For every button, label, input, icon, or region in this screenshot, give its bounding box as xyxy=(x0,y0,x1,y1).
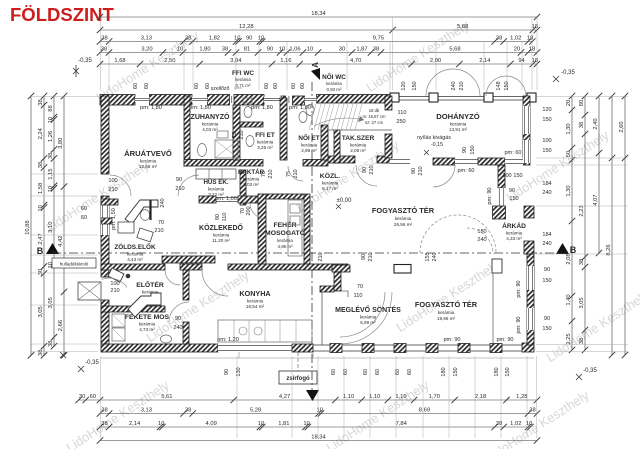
stairs xyxy=(309,104,316,130)
svg-text:3,13: 3,13 xyxy=(141,408,152,414)
svg-text:-0,15: -0,15 xyxy=(431,142,443,148)
svg-text:60: 60 xyxy=(407,369,413,375)
svg-text:3,20: 3,20 xyxy=(141,47,152,53)
svg-text:2,23: 2,23 xyxy=(579,205,585,216)
svg-text:150: 150 xyxy=(504,81,510,90)
svg-text:12,28: 12,28 xyxy=(239,24,254,30)
svg-text:kerámia: kerámia xyxy=(506,231,523,236)
svg-text:88: 88 xyxy=(48,105,54,111)
svg-text:4,43 m²: 4,43 m² xyxy=(127,257,143,262)
right bottom corner pier xyxy=(522,343,534,352)
svg-text:5,61: 5,61 xyxy=(161,394,172,400)
porch edge xyxy=(78,282,101,300)
section line A vertical xyxy=(311,82,313,390)
svg-text:MOSOGATÓ: MOSOGATÓ xyxy=(265,228,305,237)
svg-text:2,24: 2,24 xyxy=(38,127,44,139)
svg-text:150: 150 xyxy=(412,81,418,90)
svg-text:150: 150 xyxy=(542,117,551,123)
plinth line below bottom wall xyxy=(101,357,534,359)
svg-text:90: 90 xyxy=(361,254,367,260)
svg-text:38: 38 xyxy=(579,122,585,128)
svg-text:FEKETE MOS: FEKETE MOS xyxy=(125,314,170,321)
svg-text:210: 210 xyxy=(459,81,465,90)
svg-text:75: 75 xyxy=(232,132,238,138)
svg-text:1,70: 1,70 xyxy=(429,394,440,400)
svg-text:210: 210 xyxy=(110,288,119,294)
zuhanyzo / ffi wc divider xyxy=(233,105,240,160)
svg-text:1,28: 1,28 xyxy=(516,394,527,400)
zuhanyzo fixtures xyxy=(215,140,238,158)
top terrace edge with piers xyxy=(390,96,530,98)
svg-text:1,82: 1,82 xyxy=(209,36,220,42)
svg-text:4,07: 4,07 xyxy=(593,194,599,205)
svg-text:5,28: 5,28 xyxy=(250,408,261,414)
svg-text:kerámia: kerámia xyxy=(450,122,467,127)
svg-text:210: 210 xyxy=(175,186,184,192)
svg-text:kerámia: kerámia xyxy=(243,177,260,182)
svg-text:20: 20 xyxy=(566,100,572,106)
ffi et / noi et divider xyxy=(280,98,287,160)
noi et right wall xyxy=(321,125,328,160)
svg-text:1,25: 1,25 xyxy=(566,333,572,344)
svg-text:2,99 m²: 2,99 m² xyxy=(301,148,317,153)
svg-text:ÁRKÁD: ÁRKÁD xyxy=(502,221,526,230)
svg-text:120: 120 xyxy=(401,81,407,90)
svg-text:2,60: 2,60 xyxy=(619,121,625,132)
konyha counters xyxy=(218,320,312,342)
svg-text:2,08 m²: 2,08 m² xyxy=(350,148,366,153)
ffi et fixtures xyxy=(246,136,254,147)
svg-text:kerámia: kerámia xyxy=(247,299,264,304)
svg-text:B: B xyxy=(570,245,577,255)
svg-text:10: 10 xyxy=(177,47,183,53)
hus ek counter xyxy=(196,169,236,179)
svg-text:10,88: 10,88 xyxy=(25,220,31,235)
svg-text:80: 80 xyxy=(215,214,221,220)
svg-text:pm: 1,80: pm: 1,80 xyxy=(140,105,162,111)
svg-text:kerámia: kerámia xyxy=(350,143,367,148)
eloter / fekete mos walls xyxy=(183,270,189,300)
svg-text:38: 38 xyxy=(222,47,228,53)
svg-text:ZUHANYZÓ: ZUHANYZÓ xyxy=(191,112,230,121)
svg-text:240: 240 xyxy=(173,325,182,331)
svg-text:7,84: 7,84 xyxy=(396,421,408,427)
svg-text:KONYHA: KONYHA xyxy=(239,289,270,298)
svg-text:50: 50 xyxy=(566,151,572,157)
svg-text:-0,35: -0,35 xyxy=(583,368,597,374)
svg-text:13,91 m²: 13,91 m² xyxy=(449,127,468,132)
svg-text:81: 81 xyxy=(244,47,250,53)
svg-text:FEHÉR: FEHÉR xyxy=(273,220,296,229)
svg-text:150: 150 xyxy=(509,196,518,202)
svg-text:70: 70 xyxy=(158,220,164,226)
hus ek right / raktar left xyxy=(240,170,246,205)
svg-text:60: 60 xyxy=(363,369,369,375)
svg-text:kerámia: kerámia xyxy=(301,143,318,148)
svg-text:FFI WC: FFI WC xyxy=(232,70,254,77)
section marker A top xyxy=(311,68,320,80)
svg-text:150: 150 xyxy=(513,173,522,179)
feher mosogato walls xyxy=(258,194,266,266)
svg-text:3,26 m²: 3,26 m² xyxy=(257,145,273,150)
svg-text:38: 38 xyxy=(38,350,44,356)
svg-text:5,88: 5,88 xyxy=(457,24,468,30)
svg-text:FOGYASZTÓ TÉR: FOGYASZTÓ TÉR xyxy=(415,300,478,309)
svg-text:70: 70 xyxy=(357,284,363,290)
svg-text:210: 210 xyxy=(368,252,374,261)
svg-text:4,27: 4,27 xyxy=(279,394,290,400)
svg-text:60: 60 xyxy=(300,83,306,89)
svg-text:MEGLÉVŐ SÖNTÉS: MEGLÉVŐ SÖNTÉS xyxy=(335,305,401,314)
svg-text:1,02: 1,02 xyxy=(510,36,521,42)
outer bottom wall xyxy=(101,344,218,352)
svg-text:pm: 60: pm: 60 xyxy=(504,150,521,156)
svg-text:TAK.SZER: TAK.SZER xyxy=(342,135,375,142)
svg-text:184: 184 xyxy=(542,181,551,187)
door arcs xyxy=(110,175,131,196)
svg-text:8,69: 8,69 xyxy=(419,408,430,414)
svg-text:pm: 90: pm: 90 xyxy=(443,337,460,343)
svg-text:2,40: 2,40 xyxy=(593,118,599,129)
svg-text:100: 100 xyxy=(502,173,511,179)
svg-text:sz: 27 cm: sz: 27 cm xyxy=(365,120,383,125)
section line B horizontal xyxy=(52,252,562,254)
svg-text:KÖZL.: KÖZL. xyxy=(320,171,340,180)
svg-text:38: 38 xyxy=(373,47,379,53)
svg-text:5,68: 5,68 xyxy=(449,47,460,53)
svg-text:20: 20 xyxy=(514,47,520,53)
svg-text:38: 38 xyxy=(101,47,107,53)
zuhanyzo sink xyxy=(217,131,228,138)
svg-text:210: 210 xyxy=(418,166,424,175)
svg-text:m: 16,67 cm: m: 16,67 cm xyxy=(362,114,386,119)
svg-text:60: 60 xyxy=(375,369,381,375)
svg-text:240: 240 xyxy=(451,81,457,90)
svg-text:1,87: 1,87 xyxy=(356,47,367,53)
svg-text:nyílás kivágás: nyílás kivágás xyxy=(417,135,451,141)
svg-text:DOHÁNYZÓ: DOHÁNYZÓ xyxy=(436,112,480,121)
section marker A bottom xyxy=(306,390,319,401)
svg-text:60: 60 xyxy=(133,83,139,89)
svg-text:1,03 m²: 1,03 m² xyxy=(243,182,259,187)
svg-text:1,30: 1,30 xyxy=(566,123,572,134)
svg-text:2,08: 2,08 xyxy=(566,253,572,264)
svg-text:38: 38 xyxy=(48,153,54,159)
svg-text:200: 200 xyxy=(246,206,252,215)
svg-text:250: 250 xyxy=(396,119,405,125)
svg-text:2,14: 2,14 xyxy=(479,58,491,64)
svg-text:240: 240 xyxy=(477,237,486,243)
svg-text:90: 90 xyxy=(462,147,468,153)
svg-text:155: 155 xyxy=(425,252,431,261)
wall right of tak szer xyxy=(385,96,392,110)
svg-text:3,05: 3,05 xyxy=(38,306,44,317)
svg-text:kerámia: kerámia xyxy=(139,322,156,327)
svg-text:1,80: 1,80 xyxy=(199,47,210,53)
svg-text:10: 10 xyxy=(279,47,285,53)
svg-text:150: 150 xyxy=(453,367,459,376)
noi wc fixtures xyxy=(306,105,314,116)
feher mosogato fixtures xyxy=(288,200,302,256)
svg-text:1,06: 1,06 xyxy=(289,47,300,53)
interior: aruatvevo/zuhanyzo divider xyxy=(184,96,190,166)
svg-text:120: 120 xyxy=(542,107,551,113)
svg-text:pm: 90: pm: 90 xyxy=(516,316,522,333)
noi et bottom walls xyxy=(303,160,328,167)
svg-text:1,26: 1,26 xyxy=(48,131,54,142)
svg-text:3,80: 3,80 xyxy=(58,138,64,149)
svg-text:18 db: 18 db xyxy=(369,108,380,113)
extension lines right xyxy=(536,96,628,98)
svg-text:240: 240 xyxy=(160,198,166,207)
svg-text:150: 150 xyxy=(505,367,511,376)
svg-text:1,10: 1,10 xyxy=(343,394,354,400)
svg-text:90: 90 xyxy=(544,316,550,322)
svg-text:26,56 m²: 26,56 m² xyxy=(394,222,413,227)
svg-text:38: 38 xyxy=(38,162,44,168)
svg-text:240: 240 xyxy=(542,190,551,196)
ffi wc fixtures xyxy=(244,107,252,118)
svg-text:kerámia: kerámia xyxy=(326,81,342,86)
svg-text:-0,35: -0,35 xyxy=(85,360,99,366)
svg-text:210: 210 xyxy=(293,169,299,178)
svg-text:80: 80 xyxy=(579,100,585,106)
svg-text:210: 210 xyxy=(318,252,324,261)
svg-text:pm: 1,50: pm: 1,50 xyxy=(111,208,117,230)
svg-text:pm: 90: pm: 90 xyxy=(487,187,493,204)
svg-text:kerámia: kerámia xyxy=(127,252,144,257)
svg-text:12,68 m²: 12,68 m² xyxy=(139,164,158,169)
svg-text:150: 150 xyxy=(542,278,551,284)
dohanyzo right wall xyxy=(523,96,530,165)
svg-text:100: 100 xyxy=(108,178,117,184)
svg-text:3,04: 3,04 xyxy=(230,58,242,64)
outer left wall xyxy=(101,96,109,174)
aruatvevo desk xyxy=(125,200,158,224)
svg-text:60: 60 xyxy=(144,83,150,89)
svg-text:A: A xyxy=(311,62,320,68)
svg-text:FÖLDSZINT: FÖLDSZINT xyxy=(10,4,114,25)
svg-text:kerámia: kerámia xyxy=(257,140,274,145)
svg-text:10: 10 xyxy=(307,47,313,53)
svg-text:90: 90 xyxy=(411,168,417,174)
svg-text:KÖZLEKEDŐ: KÖZLEKEDŐ xyxy=(199,223,244,232)
svg-text:16,54 m²: 16,54 m² xyxy=(246,304,265,309)
svg-text:210: 210 xyxy=(369,165,375,174)
arcade dashed arches xyxy=(420,215,496,253)
svg-text:±0,00: ±0,00 xyxy=(337,198,353,204)
svg-text:HÚS EK.: HÚS EK. xyxy=(203,179,228,186)
outer top wall xyxy=(100,95,135,106)
svg-text:1,81: 1,81 xyxy=(278,421,289,427)
svg-text:18,34: 18,34 xyxy=(311,11,326,17)
svg-text:150: 150 xyxy=(542,148,551,154)
svg-text:184: 184 xyxy=(542,232,551,238)
ffi wc stub xyxy=(240,122,263,127)
svg-text:1,40: 1,40 xyxy=(566,294,572,305)
svg-text:38: 38 xyxy=(48,340,54,346)
svg-text:kerámia: kerámia xyxy=(438,310,455,315)
svg-text:19,96 m²: 19,96 m² xyxy=(437,316,456,321)
svg-text:0,71 m²: 0,71 m² xyxy=(236,83,251,88)
svg-text:38: 38 xyxy=(579,259,585,265)
svg-text:kerámia: kerámia xyxy=(395,216,412,221)
svg-text:9,75: 9,75 xyxy=(373,36,384,42)
svg-text:2,14: 2,14 xyxy=(129,421,141,427)
hulladektarolo xyxy=(52,258,96,268)
svg-text:2,18: 2,18 xyxy=(475,394,486,400)
svg-text:60: 60 xyxy=(264,83,270,89)
svg-text:4,42: 4,42 xyxy=(58,236,64,247)
svg-text:18,34: 18,34 xyxy=(311,435,326,441)
fekete mos fixtures xyxy=(112,314,125,327)
eloter counter xyxy=(128,293,161,317)
svg-text:180: 180 xyxy=(494,367,500,376)
arcade vertical wall xyxy=(498,165,505,188)
svg-text:0,93 m²: 0,93 m² xyxy=(327,87,342,92)
svg-text:FFI ET: FFI ET xyxy=(255,132,275,139)
svg-text:90: 90 xyxy=(175,316,181,322)
svg-text:150: 150 xyxy=(470,145,476,154)
svg-text:4,33 m²: 4,33 m² xyxy=(506,236,522,241)
svg-text:75: 75 xyxy=(261,171,267,177)
svg-text:4,73 m²: 4,73 m² xyxy=(139,327,155,332)
noi et fixtures xyxy=(299,112,307,123)
svg-text:2,66: 2,66 xyxy=(58,320,64,331)
svg-text:3,10: 3,10 xyxy=(48,222,54,233)
svg-text:3,05: 3,05 xyxy=(579,297,585,308)
svg-text:kerámia: kerámia xyxy=(208,187,225,192)
svg-text:110: 110 xyxy=(222,213,228,222)
svg-text:pm: 90: pm: 90 xyxy=(496,337,513,343)
kitchen top wall y264 xyxy=(101,264,165,270)
svg-text:38: 38 xyxy=(579,338,585,344)
svg-text:NŐI ET: NŐI ET xyxy=(298,133,319,142)
svg-text:240: 240 xyxy=(432,252,438,261)
tak szer left wall xyxy=(334,130,340,163)
right lower wall xyxy=(527,254,534,345)
svg-text:kerámia: kerámia xyxy=(322,181,339,186)
svg-text:FOGYASZTÓ TÉR: FOGYASZTÓ TÉR xyxy=(372,206,435,215)
svg-text:38: 38 xyxy=(38,99,44,105)
svg-text:ELŐTÉR: ELŐTÉR xyxy=(136,280,164,289)
svg-text:1,58: 1,58 xyxy=(38,183,44,194)
svg-text:kerámia: kerámia xyxy=(202,122,219,127)
svg-text:hulladéktároló: hulladéktároló xyxy=(60,262,89,267)
svg-text:ZÖLDS.ELŐK: ZÖLDS.ELŐK xyxy=(114,242,156,251)
svg-text:11,20 m²: 11,20 m² xyxy=(212,238,230,243)
svg-text:60: 60 xyxy=(194,83,200,89)
svg-text:1,10: 1,10 xyxy=(369,394,380,400)
svg-text:kerámia: kerámia xyxy=(360,315,377,320)
svg-text:90: 90 xyxy=(362,167,368,173)
svg-text:1,02: 1,02 xyxy=(510,421,521,427)
svg-text:60: 60 xyxy=(331,369,337,375)
svg-text:100: 100 xyxy=(542,138,551,144)
section marker B right xyxy=(556,243,569,254)
svg-text:90: 90 xyxy=(267,47,273,53)
svg-text:30: 30 xyxy=(339,47,345,53)
svg-text:4,70: 4,70 xyxy=(350,58,361,64)
svg-text:pm: 90: pm: 90 xyxy=(516,280,522,297)
zolds elok fixture xyxy=(137,228,153,242)
svg-text:210: 210 xyxy=(108,187,117,193)
svg-text:1,30: 1,30 xyxy=(566,185,572,196)
svg-text:100: 100 xyxy=(110,281,119,287)
svg-text:4,03 m²: 4,03 m² xyxy=(202,127,218,132)
zolds elok bottom wall xyxy=(162,256,215,263)
svg-text:210: 210 xyxy=(268,169,274,178)
svg-text:4,96 m²: 4,96 m² xyxy=(278,244,293,249)
svg-text:110: 110 xyxy=(398,110,407,116)
svg-text:zsírfogó: zsírfogó xyxy=(286,376,310,382)
svg-text:pm: 1,80: pm: 1,80 xyxy=(189,105,211,111)
svg-text:szellőző: szellőző xyxy=(211,86,230,92)
svg-text:90: 90 xyxy=(544,267,550,273)
extension lines bottom xyxy=(100,356,102,438)
svg-text:pm: 1,00: pm: 1,00 xyxy=(215,196,237,202)
svg-text:60: 60 xyxy=(90,394,96,400)
sontes walls xyxy=(332,265,350,272)
svg-text:kerámia: kerámia xyxy=(140,159,157,164)
svg-text:90: 90 xyxy=(246,36,252,42)
dohanyzo double door arcs xyxy=(426,69,453,96)
svg-text:90: 90 xyxy=(509,188,515,194)
svg-text:kerámia: kerámia xyxy=(213,233,230,238)
svg-text:60: 60 xyxy=(291,83,297,89)
svg-text:1,68: 1,68 xyxy=(114,58,125,64)
wall below dohanyzo xyxy=(328,156,355,163)
svg-text:110: 110 xyxy=(354,293,363,299)
svg-text:240: 240 xyxy=(542,241,551,247)
stairs landing edge xyxy=(328,129,392,131)
svg-text:60: 60 xyxy=(273,83,279,89)
svg-text:90: 90 xyxy=(224,369,230,375)
svg-text:60: 60 xyxy=(81,206,87,212)
svg-text:kerámia: kerámia xyxy=(277,238,293,243)
svg-text:pm: 60: pm: 60 xyxy=(457,168,474,174)
svg-text:148: 148 xyxy=(496,81,502,90)
svg-text:180: 180 xyxy=(477,229,486,235)
svg-text:-0,35: -0,35 xyxy=(561,70,575,76)
svg-text:180: 180 xyxy=(441,367,447,376)
svg-text:pm: 1,80: pm: 1,80 xyxy=(251,105,273,111)
svg-text:210: 210 xyxy=(154,228,163,234)
eloter door leaf xyxy=(108,268,124,282)
svg-text:2,00: 2,00 xyxy=(430,58,441,64)
svg-text:1,16: 1,16 xyxy=(280,58,291,64)
svg-text:-0,35: -0,35 xyxy=(78,58,92,64)
svg-text:150: 150 xyxy=(542,326,551,332)
extension lines left xyxy=(30,96,98,98)
svg-text:kerámia: kerámia xyxy=(235,77,251,82)
svg-text:B: B xyxy=(37,246,44,256)
svg-text:NŐI WC: NŐI WC xyxy=(322,72,346,81)
svg-text:60: 60 xyxy=(81,215,87,221)
svg-text:90: 90 xyxy=(176,177,182,183)
svg-text:210: 210 xyxy=(239,130,245,139)
svg-text:3,05: 3,05 xyxy=(48,297,54,308)
svg-text:3,13: 3,13 xyxy=(141,36,152,42)
kozlekedo top walls xyxy=(101,199,118,205)
svg-text:2,50: 2,50 xyxy=(164,58,175,64)
zsirfogo xyxy=(279,371,317,384)
svg-text:4,09: 4,09 xyxy=(206,421,217,427)
svg-text:6,17 m²: 6,17 m² xyxy=(322,186,338,191)
svg-text:ÁRUÁTVEVŐ: ÁRUÁTVEVŐ xyxy=(124,149,172,158)
svg-text:1,10: 1,10 xyxy=(395,394,406,400)
sontes counter xyxy=(341,291,348,297)
